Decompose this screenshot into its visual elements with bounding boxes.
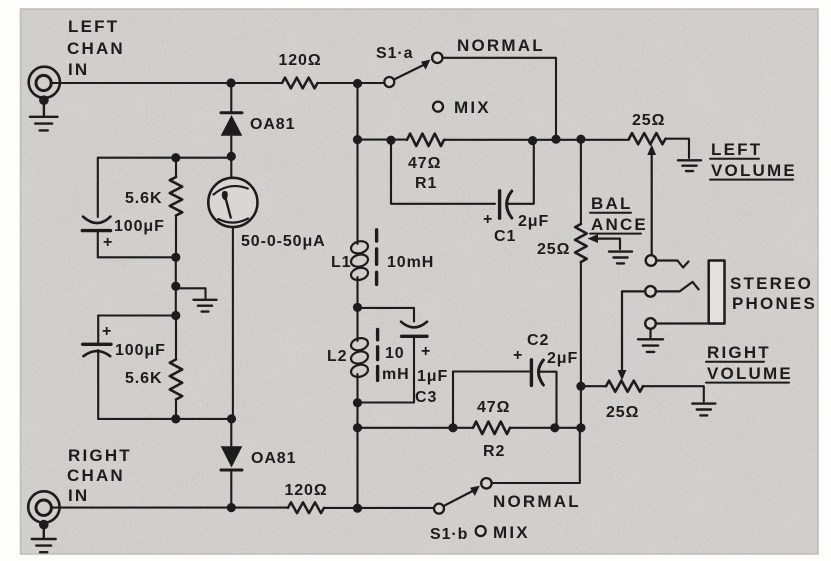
jack J3 sleeve contact xyxy=(645,318,656,329)
wire: top of lower RC network xyxy=(98,314,176,316)
wire: VR3 right end to ground xyxy=(643,386,704,401)
wire: R1/C1 lower loop left xyxy=(391,140,495,204)
node: center bus / R2 bus xyxy=(353,423,362,432)
svg-text:C2: C2 xyxy=(527,332,549,349)
node: L2 bottom junction xyxy=(353,398,362,407)
svg-text:2μF: 2μF xyxy=(518,213,549,230)
wire: C2 upper loop left xyxy=(453,372,529,428)
contact: NORMAL position (S1-b) xyxy=(481,478,491,488)
svg-text:100μF: 100μF xyxy=(115,342,166,359)
svg-text:OA81: OA81 xyxy=(251,450,296,467)
svg-text:STEREO: STEREO xyxy=(730,274,813,293)
node: top of 5.6K upper xyxy=(171,153,180,162)
wire: junction to VR3 element xyxy=(581,385,606,387)
inductor L2 coil loops xyxy=(350,336,370,378)
wire: center bus bottom segment xyxy=(356,403,358,508)
switch S1-a arm xyxy=(394,64,426,80)
svg-text:47Ω: 47Ω xyxy=(408,155,441,172)
wire: meter M1 down the diode bus xyxy=(232,227,234,419)
ground: jack sleeve xyxy=(638,339,663,352)
potentiometer VR2 BALANCE 25ohm element xyxy=(575,224,587,262)
switch S1-b arm xyxy=(444,490,475,506)
wire: node to meter M1 xyxy=(230,156,232,178)
capacitor C1 2uF: straight plate xyxy=(498,191,501,218)
node: NORMAL-a riser / top bus xyxy=(551,135,560,144)
wire: capacitor C5 to bottom rail xyxy=(97,350,99,419)
switch S1-b pole contact xyxy=(434,504,444,514)
resistor 120ohm (left channel) xyxy=(282,78,318,89)
node: right bus / top bus xyxy=(576,135,585,144)
wire: left branch to capacitor 100uF lower xyxy=(97,316,99,344)
wire: right bus lower segment xyxy=(580,262,582,428)
wire: VR2 wiper to ground elbow xyxy=(595,239,620,249)
svg-text:47Ω: 47Ω xyxy=(477,399,510,416)
wire: center bus top segment xyxy=(356,83,358,240)
capacitor C4 100uF upper: curved plate xyxy=(83,217,111,223)
svg-text:CHAN: CHAN xyxy=(67,39,125,58)
wire: left branch down to capacitor 100uF upper xyxy=(97,158,99,217)
ground: right input xyxy=(32,539,56,552)
capacitor C3 1uF: curved plate xyxy=(401,322,427,328)
inductor L1 10mH coil loops xyxy=(350,239,370,281)
svg-text:PHONES: PHONES xyxy=(732,294,817,313)
connector J2 RIGHT CHAN IN xyxy=(28,491,59,522)
svg-text:25Ω: 25Ω xyxy=(537,241,570,258)
inductor L1 10mH leads xyxy=(356,240,358,308)
wire: C2 to right riser xyxy=(539,372,557,428)
svg-text:S1·b: S1·b xyxy=(430,526,468,543)
svg-text:NORMAL: NORMAL xyxy=(493,492,581,511)
wire: diode D1 to meter node xyxy=(230,136,232,157)
svg-text:+: + xyxy=(103,234,113,251)
svg-text:120Ω: 120Ω xyxy=(284,482,327,499)
ground: right volume xyxy=(692,404,715,416)
resistor R3 5.6K upper xyxy=(175,158,177,177)
svg-text:IN: IN xyxy=(68,486,89,505)
contact: MIX position (S1-a) xyxy=(433,102,443,112)
inductor L2 core dashes xyxy=(376,329,379,380)
diode D2 OA81 cathode bar xyxy=(221,469,242,472)
wire: R2 bus xyxy=(358,427,581,429)
meter M1 needle xyxy=(224,194,230,218)
svg-text:+: + xyxy=(102,323,112,340)
wire: bottom of lower RC network xyxy=(98,418,231,420)
jack J3 tip spring arm xyxy=(657,261,689,268)
node: bottom bus / diode bus xyxy=(227,503,236,512)
svg-text:R2: R2 xyxy=(483,443,505,460)
meter M1 needle tip xyxy=(222,191,228,200)
svg-text:CHAN: CHAN xyxy=(67,466,125,485)
svg-text:+: + xyxy=(513,347,523,364)
wire: VR1 right end to ground xyxy=(666,139,690,158)
VR1 wiper arrowhead xyxy=(647,145,656,156)
svg-text:+: + xyxy=(421,343,431,360)
resistor R4 5.6K lower xyxy=(175,316,177,360)
wire: C1 to right riser xyxy=(507,141,534,204)
ground: mid-left network xyxy=(194,300,217,312)
contact: NORMAL position (S1-a) xyxy=(432,53,442,63)
wire: right input sleeve to ground xyxy=(43,524,45,538)
node: left input sleeve junction xyxy=(39,95,49,105)
VR2 wiper arrowhead xyxy=(588,234,599,243)
wire: C3 branch top xyxy=(358,308,415,322)
capacitor C3 1uF: straight plate xyxy=(402,335,428,338)
diode D2 OA81 triangle (pointing down) xyxy=(221,446,243,467)
wire: junction to diode D1 anode xyxy=(230,83,232,112)
jack J3 tip contact xyxy=(646,255,657,266)
svg-text:25Ω: 25Ω xyxy=(606,404,639,421)
switch S1-a pole contact xyxy=(384,77,394,87)
wire: sleeve contact to plug body xyxy=(656,322,725,324)
svg-text:RIGHT: RIGHT xyxy=(707,343,771,362)
svg-text:+: + xyxy=(483,211,493,228)
svg-text:C3: C3 xyxy=(415,389,437,406)
inductor L2 leads xyxy=(356,307,358,403)
wire: sleeve to ground xyxy=(649,329,651,338)
svg-text:S1·a: S1·a xyxy=(376,45,413,62)
node: ground tap xyxy=(171,282,180,291)
wire: NORMAL-a contact to right bus xyxy=(443,58,557,139)
svg-text:ANCE: ANCE xyxy=(591,215,648,234)
svg-text:25Ω: 25Ω xyxy=(632,112,665,129)
node: right input sleeve junction xyxy=(39,520,49,530)
capacitor C2 2uF: straight plate xyxy=(530,360,533,386)
connector J1 LEFT CHAN IN xyxy=(29,67,60,98)
svg-text:100μF: 100μF xyxy=(114,218,165,235)
potentiometer VR3 RIGHT VOLUME 25ohm element xyxy=(606,381,643,392)
diode D1 OA81 cathode bar xyxy=(221,111,242,114)
node: center bus / R1 bus xyxy=(353,135,362,144)
VR3 wiper arrowhead xyxy=(618,370,627,381)
svg-text:RIGHT: RIGHT xyxy=(68,446,132,465)
svg-text:MIX: MIX xyxy=(454,98,491,117)
contact: MIX position (S1-b) xyxy=(476,526,486,536)
ground: left volume xyxy=(678,160,701,171)
wire: left input to 120ohm and S1-a pole xyxy=(52,82,384,84)
svg-text:50‑0‑50μA: 50‑0‑50μA xyxy=(241,233,326,250)
resistor 120ohm (right channel) xyxy=(288,502,324,513)
wire: node to diode D2 anode xyxy=(230,419,232,446)
node: R2 left junction xyxy=(448,423,457,432)
wire: top bus through R1 region xyxy=(358,139,630,141)
svg-text:NORMAL: NORMAL xyxy=(457,36,545,55)
meter M1 lower scale chord xyxy=(218,219,248,223)
node: right bus / right volume junction xyxy=(576,382,585,391)
node: R1 left junction xyxy=(386,136,395,145)
wire: mid bus between networks xyxy=(175,257,177,315)
node: diode bus / 5.6K network top xyxy=(227,152,236,161)
wire: diode D2 to bottom bus xyxy=(230,470,232,508)
node: L1/L2 junction xyxy=(353,303,362,312)
svg-text:MIX: MIX xyxy=(493,523,530,542)
node: right bus / R2 bus xyxy=(576,423,585,432)
svg-text:VOLUME: VOLUME xyxy=(707,364,793,383)
wire: ring contact to VR3 wiper / ring spring arm xyxy=(622,282,699,292)
wire: C3 branch bottom xyxy=(358,336,415,402)
svg-text:VOLUME: VOLUME xyxy=(711,161,797,180)
svg-text:L1: L1 xyxy=(331,254,351,271)
svg-text:10: 10 xyxy=(385,345,405,362)
svg-text:C1: C1 xyxy=(494,228,516,245)
resistor R1 47ohm xyxy=(407,134,444,146)
meter M1 body circle xyxy=(208,178,257,227)
wire: bottom bus right input to S1-b pole xyxy=(52,507,434,509)
jack J3 ring contact xyxy=(645,286,656,297)
node: bottom bus / center bus xyxy=(353,504,362,513)
wire: VR1 wiper down to phones tip xyxy=(651,152,653,255)
node: junction left input / center bus xyxy=(353,79,362,88)
svg-text:LEFT: LEFT xyxy=(68,17,119,36)
wire: bottom of upper RC network xyxy=(98,256,176,258)
node: bottom of 5.6K lower xyxy=(171,414,180,423)
wire: VR3 wiper riser to phones ring xyxy=(621,291,623,372)
meter M1 scale arc xyxy=(214,186,248,194)
svg-text:R1: R1 xyxy=(415,175,437,192)
svg-text:2μF: 2μF xyxy=(547,350,578,367)
svg-text:5.6K: 5.6K xyxy=(125,370,162,387)
wire: right bus upper segment xyxy=(580,139,582,224)
wire: left input sleeve to ground xyxy=(43,100,45,116)
capacitor C2 2uF: curved plate xyxy=(539,360,544,385)
node: C1 riser / top bus xyxy=(528,136,537,145)
node: top of 5.6K lower xyxy=(171,311,180,320)
svg-text:BAL: BAL xyxy=(591,194,633,213)
jack J3 plug body xyxy=(709,261,725,324)
ground: left input xyxy=(30,117,58,131)
wire: NORMAL-b contact up to R2 bus xyxy=(492,428,580,483)
potentiometer VR1 LEFT VOLUME 25ohm element xyxy=(629,133,665,144)
node: C2 riser / R2 bus xyxy=(550,423,559,432)
inductor L1 core dashes xyxy=(375,230,378,285)
svg-text:L2: L2 xyxy=(327,348,347,365)
wire: ground tap elbow xyxy=(176,288,206,298)
wire: capacitor C4 to bottom rail xyxy=(97,231,99,258)
svg-text:OA81: OA81 xyxy=(250,116,295,133)
svg-text:5.6K: 5.6K xyxy=(125,190,162,207)
svg-text:LEFT: LEFT xyxy=(711,140,762,159)
resistor R2 47ohm xyxy=(473,422,510,434)
svg-text:mH: mH xyxy=(382,366,410,383)
svg-text:10mH: 10mH xyxy=(387,254,434,271)
node: bottom of 5.6K upper xyxy=(171,253,180,262)
wire: top of upper RC network xyxy=(98,157,231,159)
svg-text:120Ω: 120Ω xyxy=(278,52,321,69)
capacitor C1 2uF: curved plate xyxy=(507,191,512,218)
capacitor C5 100uF lower: curved plate xyxy=(84,351,111,356)
node: junction left input / diode bus xyxy=(226,78,235,87)
svg-text:1μF: 1μF xyxy=(417,368,448,385)
switch S1-b arm arrowhead xyxy=(470,486,480,496)
ground: balance wiper xyxy=(609,252,632,264)
capacitor C4 100uF upper: straight plate xyxy=(82,229,110,232)
switch S1-a arm arrowhead xyxy=(421,60,431,70)
svg-text:IN: IN xyxy=(68,60,89,79)
diode D1 OA81 triangle (pointing up) xyxy=(221,115,243,136)
node: bottom rail / diode bus xyxy=(227,414,236,423)
capacitor C5 100uF lower: straight plate xyxy=(83,343,111,346)
